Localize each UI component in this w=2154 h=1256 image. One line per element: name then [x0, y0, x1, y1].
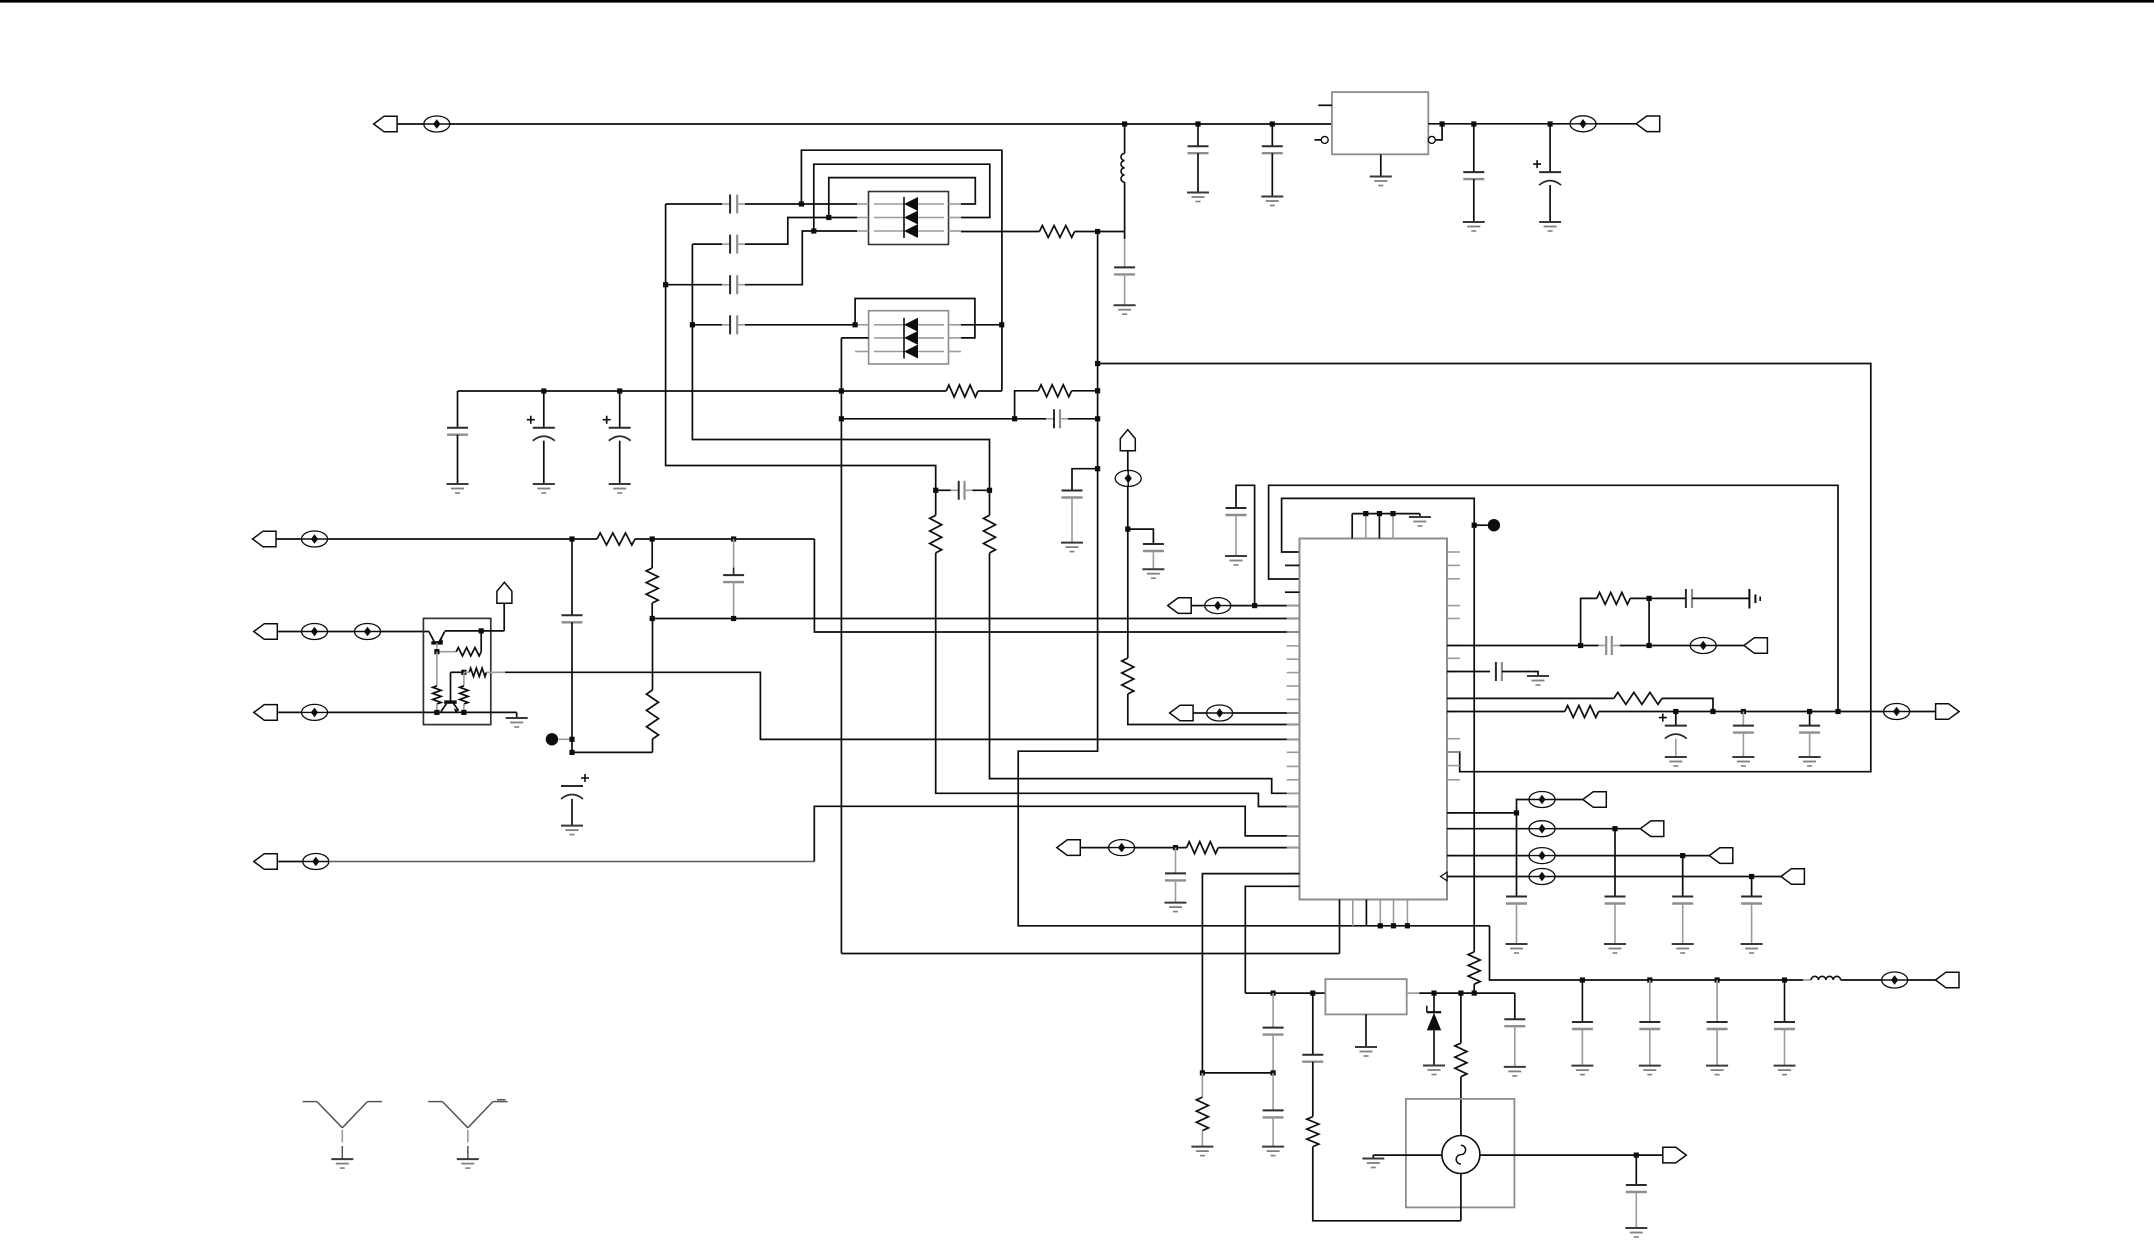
resistor R14: [1468, 952, 1480, 984]
diode array box D2: [869, 311, 949, 364]
IC U1: [1300, 539, 1448, 900]
node J28: [569, 737, 574, 742]
node J22: [933, 488, 938, 493]
capacitor C28: [1682, 856, 1684, 897]
transistor Q2: [444, 700, 457, 703]
bubble net marker N15: [1529, 828, 1555, 830]
capacitor C10 (polarized): [543, 391, 545, 428]
node J45: [1405, 923, 1410, 928]
capacitor C35 (U3 in, upper): [1272, 993, 1274, 1028]
capacitor C36 (lower): [1272, 1073, 1274, 1111]
wire R8 to collector node: [480, 631, 482, 652]
node J68: [1200, 1070, 1205, 1075]
resistor R4: [989, 490, 991, 515]
capacitor C27: [1614, 829, 1616, 897]
resistor R8 (in opto): [437, 651, 456, 653]
connector P14: [1709, 848, 1733, 864]
diode D1.3: [874, 230, 904, 232]
wire to pin: [1231, 605, 1300, 607]
diode D2.2: [874, 337, 904, 339]
node J35: [434, 710, 439, 715]
wire D1 row2 left lead: [857, 217, 869, 219]
wire D2 row1 to rectA vertical: [961, 324, 1002, 326]
bubble net marker N14: [1529, 799, 1555, 801]
node J4: [1440, 121, 1445, 126]
capacitor C18: [1226, 507, 1247, 509]
IC left pin stubs: [1285, 564, 1300, 566]
capacitor C9: [457, 391, 459, 428]
capacitor C20: [1599, 645, 1607, 647]
node J59: [1647, 977, 1652, 982]
resistor R11 (in opto): [463, 672, 465, 686]
node J25: [569, 536, 574, 541]
capacitor C15: [733, 539, 735, 568]
wire pin 828.7 row: [1447, 828, 1529, 830]
ground U2 tab: [1380, 154, 1382, 176]
node J58: [1580, 977, 1585, 982]
node J12: [690, 322, 695, 327]
wire row1 into box: [801, 203, 857, 205]
node J61: [1782, 977, 1787, 982]
wire pin 855.6 row: [1447, 855, 1529, 857]
diode D2.3: [874, 351, 904, 353]
wire row3 jog: [745, 231, 857, 285]
wire U3 output: [1407, 992, 1420, 994]
inductor L2: [1803, 979, 1811, 981]
wire bus R3 down to row 793.3: [936, 553, 1300, 807]
resistor R18: [1201, 1073, 1203, 1097]
diode D2.1: [874, 324, 904, 326]
bubble net marker N13: [1884, 711, 1910, 713]
capacitor C23 (polarized): [1675, 712, 1677, 726]
capacitor C22: [1447, 671, 1490, 673]
bubble net marker N7: [303, 861, 329, 863]
node J8: [799, 201, 804, 206]
resistor R21: [1015, 391, 1039, 419]
node J7 (top of vertical bus): [1095, 229, 1100, 234]
node J51: [1741, 709, 1746, 714]
bubble net marker N9: [1205, 605, 1231, 607]
node J42: [1390, 511, 1395, 516]
capacitor C11 (polarized): [619, 391, 621, 428]
wire net 485.3 (pin 579 loop): [1269, 485, 1838, 711]
bubble net marker N4: [302, 631, 328, 633]
capacitor C7: [666, 284, 722, 286]
wire left bus x=841.4: [840, 338, 842, 954]
resistor R1: [961, 231, 1039, 233]
node J21: [1095, 416, 1100, 421]
test point TP2: [1472, 523, 1477, 528]
capacitor C21: [1649, 597, 1686, 599]
power flag PF1: [1120, 430, 1135, 451]
connector P17 (osc out): [1663, 1147, 1687, 1163]
wire row1 jog down to pin: [814, 539, 1299, 632]
node J63: [1310, 991, 1315, 996]
capacitor C24: [1742, 712, 1744, 726]
node J71: [1095, 466, 1100, 471]
node J37: [1125, 527, 1130, 532]
connector P10: [1716, 645, 1744, 647]
test point TP1: [546, 733, 558, 745]
wire row2 to opto: [381, 631, 429, 633]
node J23: [987, 488, 992, 493]
node J1: [1122, 121, 1127, 126]
node J5: [1471, 121, 1476, 126]
node J41: [1377, 511, 1382, 516]
wire row 618.5 to IC: [652, 618, 1299, 620]
connector P9: [1057, 840, 1081, 856]
node J66: [1472, 991, 1477, 996]
wire D2 leads: [855, 324, 869, 326]
wire Q1 collector to flag: [445, 630, 505, 632]
node J36: [461, 710, 466, 715]
node J44: [1391, 923, 1396, 928]
wire loop rect A: [801, 150, 1002, 391]
wire D1 right leads: [949, 203, 962, 205]
node J62: [1271, 991, 1276, 996]
regulator U3: [1325, 979, 1406, 1014]
connector P6 (row4): [254, 854, 277, 870]
node J27: [731, 536, 736, 541]
IC bottom stubs: [1339, 900, 1341, 954]
resistor R6: [651, 539, 653, 568]
connector P15: [1781, 869, 1805, 885]
antenna symbol ANT1: [303, 1101, 317, 1103]
resistor R2: [946, 385, 978, 397]
node J47: [1647, 643, 1652, 648]
antenna symbol ANT2: [428, 1101, 442, 1103]
wire pin 886.3 feed: [1245, 886, 1299, 993]
node J60: [1715, 977, 1720, 982]
node J67: [1271, 1070, 1276, 1075]
connector P11 (output, right): [1910, 711, 1936, 713]
wire row 953.5: [841, 953, 1339, 955]
wire mid vertical: [1648, 598, 1650, 645]
wire osc bottom: [1460, 1174, 1462, 1221]
wire row y=391: [458, 390, 947, 392]
node J6: [1548, 121, 1553, 126]
capacitor C25: [1809, 712, 1811, 726]
chassis ground Y1: [1748, 589, 1750, 609]
node J56: [1680, 853, 1685, 858]
capacitor C4 (polarized): [1549, 124, 1551, 172]
wire loop rect D: [855, 299, 975, 338]
oscillator circle G1: [1442, 1136, 1480, 1174]
crystal oscillator box U5: [1406, 1099, 1515, 1208]
diode D1.2: [874, 217, 904, 219]
node J20: [839, 416, 844, 421]
resistor R13: [1187, 842, 1219, 854]
wire osc left to ground: [1373, 1154, 1442, 1156]
diode array box D1: [869, 192, 949, 245]
bubble net marker N3: [302, 538, 328, 540]
pin U2 inverting in (circle): [1315, 139, 1322, 141]
bubble net marker N17: [1529, 876, 1555, 878]
node J48: [1647, 596, 1652, 601]
wire up to row 799.5: [1517, 800, 1530, 813]
node J15: [541, 388, 546, 393]
diode D1.1: [874, 203, 904, 205]
connector P4 (row2): [254, 624, 277, 640]
node J57: [1749, 874, 1754, 879]
transistor Q1: [429, 632, 434, 642]
bubble net marker N5: [355, 631, 381, 633]
antenna ANT2 tick: [497, 1099, 505, 1101]
bubble net marker N6: [302, 711, 328, 713]
ground U3: [1365, 1014, 1367, 1047]
wire bus 925.8 corner down to 980: [1490, 926, 1583, 980]
wire pin 873.6 feed: [1202, 874, 1299, 1073]
node J43: [1378, 923, 1383, 928]
capacitor C30: [1581, 980, 1583, 1022]
IC right pin stubs: [1447, 551, 1460, 553]
resistor R5 (inline row1): [597, 533, 635, 545]
node J34: [461, 670, 466, 675]
connector P5 (row3): [254, 705, 277, 721]
wire row1: [328, 538, 598, 540]
resistor R3: [935, 490, 937, 515]
resistor R15 (bypass): [1581, 598, 1597, 645]
capacitor C16 (polarized): [561, 785, 583, 787]
pin U2 inverting out (circle): [1428, 136, 1435, 143]
capacitor C17: [1128, 529, 1154, 544]
node J26: [650, 536, 655, 541]
capacitor C12: [1046, 418, 1054, 420]
wire row 752.4: [572, 751, 653, 753]
wire row4 long: [329, 861, 815, 863]
node J14: [999, 322, 1004, 327]
resistor R17: [1565, 706, 1599, 718]
node J65: [1458, 991, 1463, 996]
wire left bus A (x=665.6): [666, 204, 936, 490]
pin U2 enable stub: [1318, 104, 1332, 106]
capacitor C8: [692, 324, 722, 326]
capacitor C14: [571, 539, 573, 615]
capacitor C19: [1175, 848, 1177, 874]
node J69: [1634, 1153, 1639, 1158]
bubble net marker N18: [1882, 979, 1908, 981]
node J16: [617, 388, 622, 393]
wire D2 row2 to left bus: [841, 337, 868, 339]
capacitor C32: [1716, 980, 1718, 1022]
bubble net marker N12: [1690, 645, 1716, 647]
node J49: [1673, 709, 1678, 714]
node J64: [1431, 991, 1436, 996]
wire D1 row1 left lead: [857, 203, 869, 205]
resistor R16: [1614, 692, 1662, 704]
connector P3 (row1): [253, 531, 277, 547]
connector P2 (top-right): [1596, 123, 1636, 125]
capacitor C34: [1514, 993, 1516, 1019]
bubble net marker N16: [1529, 855, 1555, 857]
bubble net marker N2: [1570, 123, 1596, 125]
wire row2 jog: [745, 218, 857, 245]
wire D1 row3 left lead: [857, 230, 869, 232]
wire bus R4 down to row 778.6: [990, 553, 1300, 793]
node J38: [1252, 603, 1257, 608]
node J11: [663, 282, 668, 287]
node J30: [650, 616, 655, 621]
node J10: [811, 228, 816, 233]
capacitor C29: [1751, 877, 1753, 897]
node J70: [1012, 416, 1017, 421]
wire U2 output rail: [1428, 123, 1569, 125]
ground small: [1533, 672, 1538, 677]
capacitor C6: [692, 243, 722, 245]
node J33: [479, 628, 484, 633]
power flag PF2: [503, 603, 505, 631]
node J31: [731, 616, 736, 621]
wire big loop (top y=363.5 / right x=1870.8 / row y=771.7): [1098, 364, 1871, 772]
capacitor C33: [1784, 980, 1786, 1022]
node J50: [1710, 709, 1715, 714]
resistor R9 (in opto): [436, 652, 438, 686]
resistor R7: [652, 619, 654, 691]
capacitor C37 (xtal branch): [1312, 993, 1314, 1055]
wire osc output: [1480, 1154, 1662, 1156]
wire row3 to opto: [328, 711, 424, 713]
inductor L1: [1124, 124, 1126, 153]
wire pin 645.5 row: [1447, 645, 1599, 647]
node J13: [853, 322, 858, 327]
resistor R10 (in opto): [451, 671, 464, 673]
wire left bus B (x=692.4): [692, 244, 989, 490]
wire bus 980: [1582, 979, 1803, 981]
wire cap branch: [1236, 485, 1255, 605]
clock input arrowhead: [1441, 872, 1448, 881]
wire to resistor: [1135, 847, 1187, 849]
wire U3 input: [1245, 992, 1325, 994]
node J39: [1173, 845, 1178, 850]
regulator U2: [1332, 92, 1428, 154]
connector P12: [1555, 799, 1583, 801]
connector P8: [1170, 705, 1194, 721]
resistor R20: [1460, 993, 1462, 1043]
opto isolator U4 box: [423, 618, 490, 724]
capacitor C2: [1271, 124, 1273, 146]
wire pin 812.9 row: [1447, 812, 1517, 814]
node J17: [839, 388, 844, 393]
bubble net marker N11: [1109, 847, 1135, 849]
resistor R19: [1312, 1062, 1314, 1117]
wire top rail: [450, 123, 1332, 125]
top border bar: [0, 0, 2154, 3]
node J3: [1270, 121, 1275, 126]
node J32: [434, 649, 439, 654]
wire loop rect C: [829, 178, 976, 218]
capacitor C3: [1473, 124, 1475, 172]
wire opto output (y=672.3) to row 739.4: [505, 672, 1299, 739]
wire output row 711.5: [1447, 711, 1565, 713]
node J52: [1807, 709, 1812, 714]
capacitor C13 mid: [936, 489, 951, 491]
wire pin 876.5 row: [1447, 876, 1529, 878]
zener diode D3: [1433, 993, 1435, 1012]
IC top stubs and ground bus: [1351, 514, 1353, 539]
node J53: [1835, 709, 1840, 714]
bubble net marker N8: [1127, 470, 1129, 486]
resistor R12: [1122, 658, 1134, 694]
wire opto emitter row to ground: [423, 711, 516, 713]
node J29: [569, 750, 574, 755]
wire row 1072.9: [1202, 1072, 1273, 1074]
wire loop rect B: [814, 164, 990, 231]
ground IC top: [1419, 514, 1421, 517]
capacitor C39 (below inductor): [1124, 232, 1126, 240]
node J54: [1514, 810, 1519, 815]
wire pin 698.4 row: [1447, 697, 1614, 699]
connector P16: [1908, 979, 1936, 981]
capacitor C1: [1197, 124, 1199, 146]
node J24: [1095, 361, 1100, 366]
bubble net marker N10: [1207, 712, 1233, 714]
node J46: [1578, 643, 1583, 648]
connector P1 (top-left input): [374, 116, 398, 132]
wire row y=418.8: [841, 418, 1046, 420]
node J55: [1612, 826, 1617, 831]
node J40: [1363, 511, 1368, 516]
bubble net marker N1: [424, 123, 450, 125]
capacitor C26: [1516, 813, 1518, 897]
connector P7: [1168, 598, 1192, 614]
capacitor C5: [666, 203, 722, 205]
node J9: [826, 215, 831, 220]
wire central bus x=1097.6: [1018, 232, 1489, 926]
wire net 498.4 (pin 552 loop): [1282, 498, 1475, 952]
capacitor C38: [1635, 1155, 1637, 1185]
wire to pin: [1233, 712, 1300, 714]
node J2: [1195, 121, 1200, 126]
capacitor C31: [1649, 980, 1651, 1022]
node J19: [1095, 388, 1100, 393]
connector P13: [1640, 821, 1664, 837]
